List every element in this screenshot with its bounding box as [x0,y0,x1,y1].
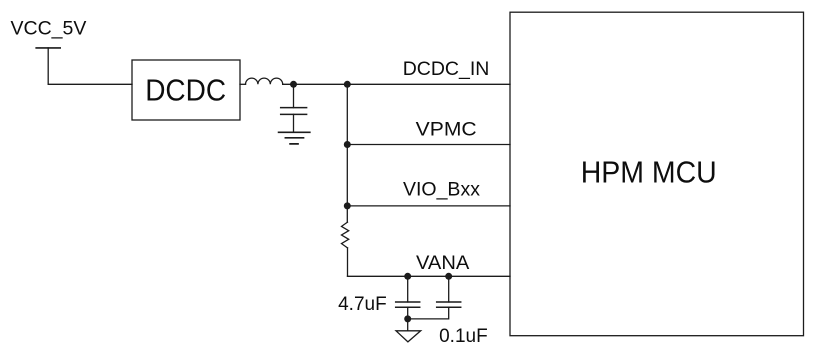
svg-text:4.7uF: 4.7uF [338,294,387,315]
junction VANA / 0.1uF [445,273,452,280]
block DCDC [132,60,240,120]
junction DCDC_IN / bus [344,81,351,88]
junction VPMC / bus [344,141,351,148]
capacitor 0.1uF plates [437,302,461,307]
resistor R [342,222,349,248]
svg-text:DCDC_IN: DCDC_IN [403,58,490,80]
capacitor 4.7uF lead bottom [407,307,409,319]
wire DCDC_IN net to MCU [283,83,510,85]
wire VIO_Bxx net to MCU [347,205,510,207]
capacitor C bulk lead top [293,84,295,107]
svg-text:VPMC: VPMC [416,119,477,141]
ground earth symbol [279,132,310,144]
svg-text:VCC_5V: VCC_5V [11,18,87,40]
junction VIO_Bxx / bus [344,202,351,209]
junction after inductor [290,81,297,88]
wire vertical bus [346,84,348,222]
capacitor 0.1uF lead bottom [408,307,449,319]
wire VANA net to MCU [348,275,511,277]
svg-text:VIO_Bxx: VIO_Bxx [403,178,480,200]
wire resistor to VANA [347,248,349,276]
wire DCDC output stub [240,83,246,85]
svg-text:DCDC: DCDC [145,73,226,108]
svg-text:0.1uF: 0.1uF [439,326,488,347]
capacitor C bulk plates [281,108,307,115]
capacitor 4.7uF lead top [407,276,409,302]
svg-text:HPM MCU: HPM MCU [581,155,717,190]
svg-text:VANA: VANA [416,252,469,274]
capacitor 0.1uF lead top [448,276,450,302]
wire VCC_5V to DCDC input [48,48,132,84]
capacitor C bulk lead bottom [293,114,295,132]
inductor L [246,78,283,84]
junction VANA / 4.7uF [404,273,411,280]
wire VPMC net to MCU [347,144,510,146]
ground arrow symbol [396,331,421,342]
junction caps bottom [404,315,411,322]
block HPM MCU [510,12,804,336]
wire ground stub [407,319,409,331]
power symbol VCC_5V bar [36,47,60,49]
capacitor 4.7uF plates [396,302,420,307]
